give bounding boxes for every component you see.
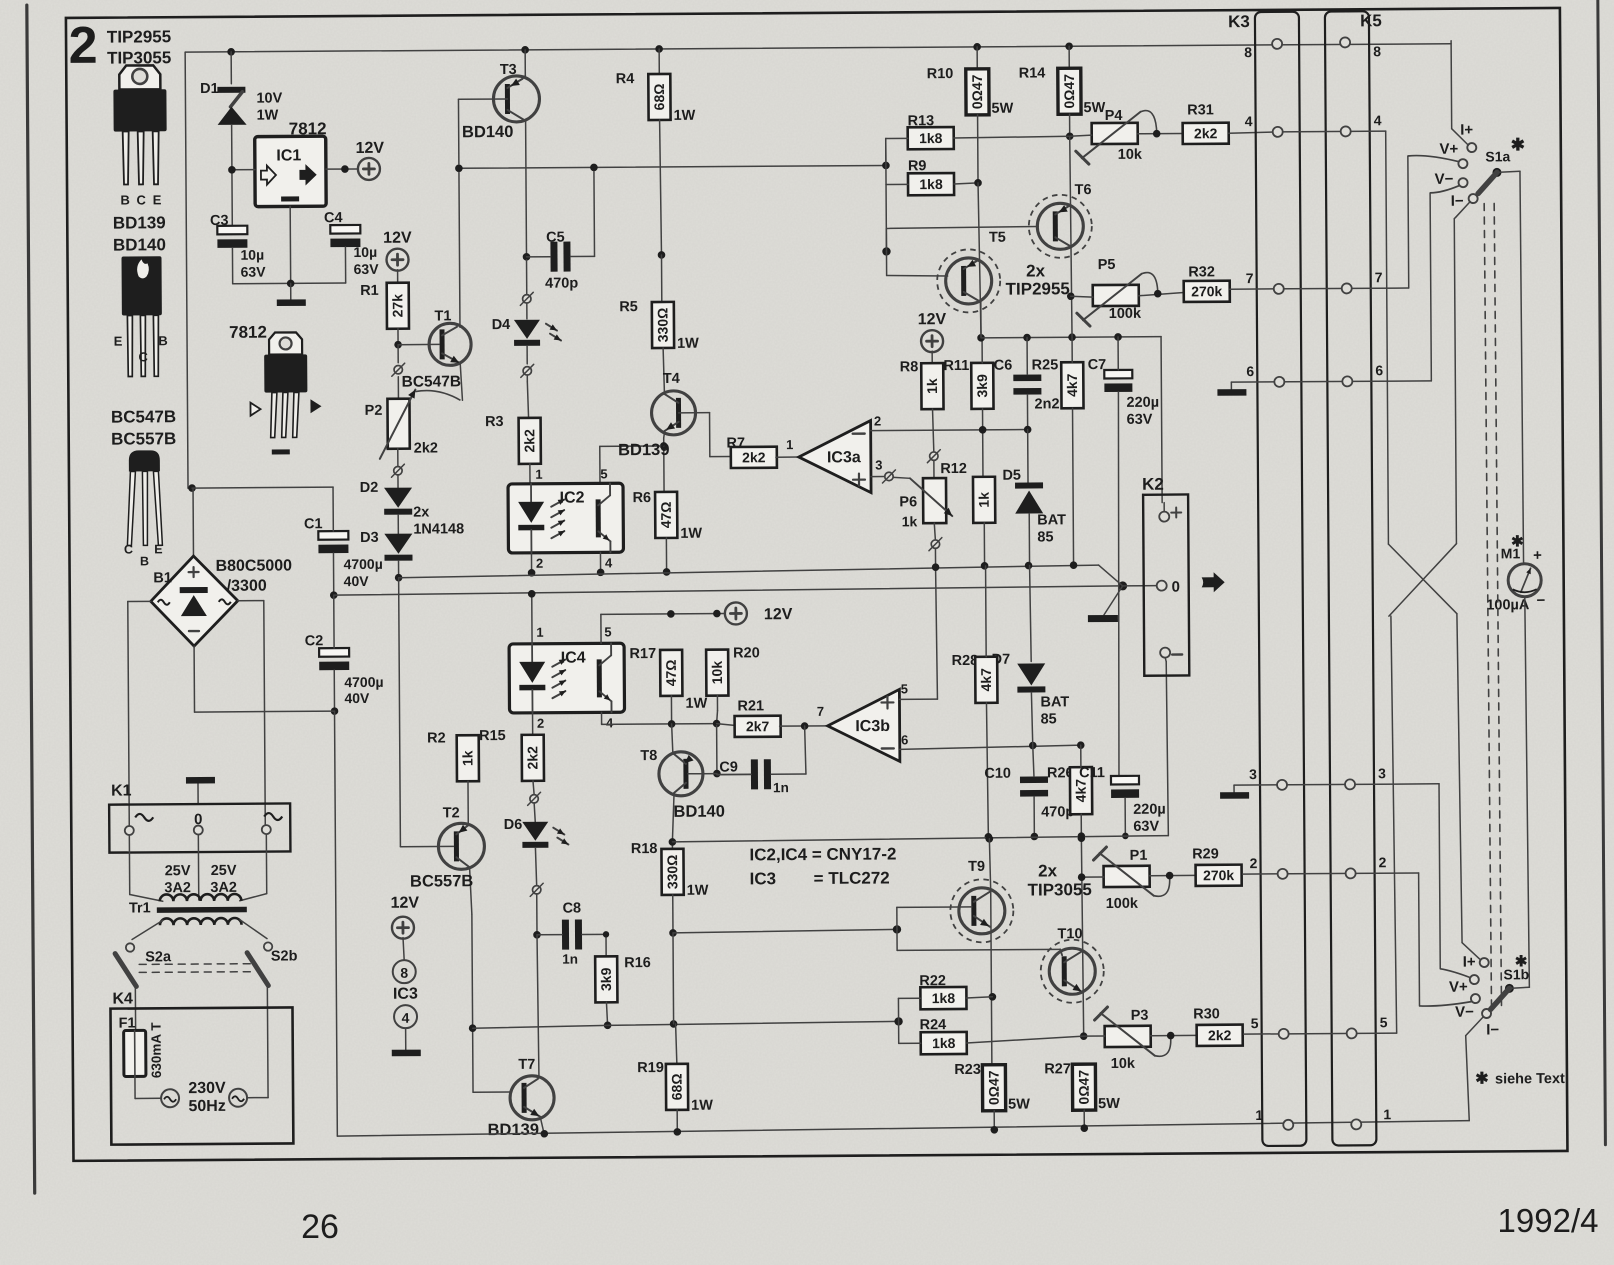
svg-text:2k2: 2k2 <box>742 449 766 465</box>
svg-text:R18: R18 <box>631 841 658 857</box>
svg-text:220µ: 220µ <box>1133 802 1166 818</box>
svg-text:2x: 2x <box>1038 861 1058 880</box>
svg-text:12V: 12V <box>918 311 947 328</box>
svg-text:B80C5000: B80C5000 <box>215 557 292 575</box>
svg-text:C8: C8 <box>563 901 582 917</box>
svg-text:D6: D6 <box>504 817 523 833</box>
svg-text:1k: 1k <box>902 513 918 529</box>
svg-text:7: 7 <box>1375 269 1383 285</box>
svg-text:D1: D1 <box>200 81 219 97</box>
svg-text:TIP2955: TIP2955 <box>107 27 171 46</box>
svg-text:R25: R25 <box>1032 357 1059 373</box>
svg-text:= TLC272: = TLC272 <box>814 868 890 888</box>
svg-text:100k: 100k <box>1106 896 1139 912</box>
svg-text:1k8: 1k8 <box>932 990 956 1006</box>
svg-text:3k9: 3k9 <box>598 967 614 991</box>
svg-text:3: 3 <box>1378 765 1386 781</box>
svg-text:C: C <box>124 542 133 556</box>
svg-text:+: + <box>1533 547 1542 564</box>
svg-text:D3: D3 <box>360 530 379 546</box>
svg-text:4: 4 <box>402 1010 410 1026</box>
svg-text:B1: B1 <box>153 570 172 586</box>
svg-text:2: 2 <box>1250 855 1258 871</box>
svg-text:1: 1 <box>1383 1106 1391 1122</box>
svg-text:BAT: BAT <box>1037 512 1066 528</box>
svg-text:270k: 270k <box>1203 867 1234 883</box>
svg-text:K4: K4 <box>112 990 133 1007</box>
svg-text:R10: R10 <box>927 66 954 82</box>
svg-text:K1: K1 <box>111 782 132 799</box>
svg-text:47Ω: 47Ω <box>658 501 674 528</box>
svg-text:R20: R20 <box>733 645 760 661</box>
svg-text:BAT: BAT <box>1040 694 1069 710</box>
svg-text:K2: K2 <box>1142 475 1164 494</box>
svg-text:siehe Text: siehe Text <box>1495 1071 1565 1087</box>
svg-text:4k7: 4k7 <box>1064 373 1080 397</box>
svg-text:D5: D5 <box>1002 468 1021 484</box>
svg-text:IC3: IC3 <box>750 869 777 888</box>
svg-text:630mA T: 630mA T <box>149 1022 164 1079</box>
svg-text:C: C <box>138 349 148 364</box>
svg-text:K5: K5 <box>1360 11 1382 30</box>
svg-text:T4: T4 <box>663 371 680 387</box>
svg-text:7: 7 <box>817 704 824 719</box>
svg-text:4: 4 <box>1374 112 1382 128</box>
svg-text:I−: I− <box>1486 1021 1499 1038</box>
svg-text:V+: V+ <box>1439 141 1458 158</box>
svg-text:47Ω: 47Ω <box>663 659 679 686</box>
svg-text:BD140: BD140 <box>673 803 724 821</box>
svg-text:2: 2 <box>68 17 97 75</box>
svg-text:BD139: BD139 <box>113 213 166 232</box>
svg-text:4700µ: 4700µ <box>343 556 382 572</box>
svg-text:1992/4: 1992/4 <box>1498 1202 1599 1239</box>
svg-text:2k2: 2k2 <box>521 429 537 453</box>
svg-text:2: 2 <box>536 556 543 571</box>
svg-text:P6: P6 <box>899 494 917 510</box>
svg-text:1: 1 <box>786 437 793 452</box>
svg-text:✱: ✱ <box>1511 533 1524 550</box>
svg-text:D2: D2 <box>360 480 379 496</box>
svg-text:R17: R17 <box>629 646 656 662</box>
svg-text:T8: T8 <box>640 748 657 764</box>
svg-text:BD139: BD139 <box>618 441 669 459</box>
svg-text:1W: 1W <box>674 108 696 124</box>
svg-text:BD139: BD139 <box>488 1121 539 1139</box>
svg-text:R29: R29 <box>1192 846 1219 862</box>
svg-text:P2: P2 <box>365 403 383 419</box>
svg-text:63V: 63V <box>1133 819 1159 835</box>
svg-text:63V: 63V <box>354 261 380 277</box>
svg-text:3: 3 <box>875 457 882 472</box>
svg-text:IC3b: IC3b <box>855 718 890 735</box>
svg-text:TIP3055: TIP3055 <box>1028 880 1092 899</box>
svg-text:1W: 1W <box>680 526 702 542</box>
svg-text:0Ω47: 0Ω47 <box>1076 1070 1092 1105</box>
svg-text:1N4148: 1N4148 <box>413 521 464 537</box>
svg-text:5: 5 <box>1380 1014 1388 1030</box>
svg-text:12V: 12V <box>383 230 412 247</box>
svg-text:V−: V− <box>1455 1004 1474 1021</box>
svg-text:T7: T7 <box>518 1057 535 1073</box>
svg-text:V−: V− <box>1435 171 1454 188</box>
svg-text:R12: R12 <box>940 461 967 477</box>
svg-text:5: 5 <box>1251 1015 1259 1031</box>
svg-text:330Ω: 330Ω <box>654 308 670 343</box>
svg-text:40V: 40V <box>344 690 370 706</box>
svg-text:25V: 25V <box>211 863 237 879</box>
svg-text:E: E <box>154 542 162 556</box>
svg-text:2: 2 <box>537 716 544 731</box>
svg-text:5W: 5W <box>1083 100 1105 116</box>
svg-text:BC547B: BC547B <box>402 373 462 390</box>
svg-text:R30: R30 <box>1193 1006 1220 1022</box>
svg-text:6: 6 <box>901 732 908 747</box>
svg-text:C4: C4 <box>324 210 343 226</box>
svg-text:1k: 1k <box>924 378 940 394</box>
svg-text:/3300: /3300 <box>227 578 267 595</box>
svg-text:Tr1: Tr1 <box>129 900 151 916</box>
svg-text:10k: 10k <box>1111 1056 1136 1072</box>
svg-text:4k7: 4k7 <box>1073 779 1089 803</box>
svg-text:S2a: S2a <box>145 949 172 965</box>
svg-text:10µ: 10µ <box>240 247 264 263</box>
svg-text:1k: 1k <box>976 492 992 508</box>
svg-text:T3: T3 <box>500 62 517 78</box>
svg-text:C6: C6 <box>994 358 1013 374</box>
svg-text:26: 26 <box>301 1208 339 1246</box>
svg-text:12V: 12V <box>355 140 384 157</box>
svg-text:B: B <box>140 554 149 568</box>
svg-text:IC4: IC4 <box>561 649 586 666</box>
svg-text:T1: T1 <box>434 308 451 324</box>
svg-text:220µ: 220µ <box>1126 395 1159 411</box>
svg-text:2k7: 2k7 <box>746 718 770 734</box>
svg-text:BC547B: BC547B <box>111 407 176 426</box>
svg-text:P4: P4 <box>1105 108 1123 124</box>
svg-text:R6: R6 <box>633 490 652 506</box>
svg-text:3k9: 3k9 <box>974 374 990 398</box>
svg-text:R19: R19 <box>637 1060 664 1076</box>
svg-text:K3: K3 <box>1228 12 1250 31</box>
svg-text:1: 1 <box>1255 1107 1263 1123</box>
svg-text:C1: C1 <box>304 516 323 532</box>
svg-text:2: 2 <box>1379 854 1387 870</box>
svg-text:R16: R16 <box>624 955 651 971</box>
svg-text:R1: R1 <box>360 283 379 299</box>
svg-text:✱: ✱ <box>1475 1070 1489 1087</box>
svg-text:R21: R21 <box>737 698 764 714</box>
svg-text:−: − <box>1536 592 1545 609</box>
svg-text:0Ω47: 0Ω47 <box>1061 74 1077 109</box>
svg-text:R23: R23 <box>954 1062 981 1078</box>
svg-text:4k7: 4k7 <box>978 668 994 692</box>
svg-text:7812: 7812 <box>229 323 267 342</box>
svg-text:R32: R32 <box>1188 264 1215 280</box>
svg-text:68Ω: 68Ω <box>669 1073 685 1100</box>
svg-text:1: 1 <box>536 625 543 640</box>
svg-text:1n: 1n <box>773 780 789 795</box>
svg-text:R31: R31 <box>1187 102 1214 118</box>
svg-text:R3: R3 <box>485 414 504 430</box>
svg-text:✱: ✱ <box>1515 953 1528 970</box>
svg-text:100µA: 100µA <box>1486 597 1530 613</box>
svg-text:BC557B: BC557B <box>111 429 176 448</box>
svg-text:I+: I+ <box>1463 954 1476 971</box>
svg-text:R27: R27 <box>1044 1061 1071 1077</box>
svg-text:85: 85 <box>1041 711 1057 727</box>
svg-text:IC3a: IC3a <box>827 449 861 466</box>
svg-text:8: 8 <box>1244 44 1252 60</box>
svg-text:T5: T5 <box>989 230 1006 246</box>
svg-text:✱: ✱ <box>1511 135 1525 154</box>
svg-text:T9: T9 <box>968 859 985 875</box>
svg-text:R4: R4 <box>616 71 635 87</box>
svg-text:R2: R2 <box>427 730 446 746</box>
svg-text:230V: 230V <box>188 1080 226 1097</box>
svg-text:25V: 25V <box>165 863 191 879</box>
svg-text:S1a: S1a <box>1485 148 1510 164</box>
svg-text:1W: 1W <box>687 883 709 899</box>
svg-text:63V: 63V <box>241 264 267 280</box>
svg-text:1k: 1k <box>459 750 475 766</box>
svg-text:5W: 5W <box>1098 1096 1120 1112</box>
svg-text:10k: 10k <box>1118 147 1143 163</box>
svg-text:5: 5 <box>604 624 611 639</box>
svg-text:40V: 40V <box>344 573 370 589</box>
svg-text:1W: 1W <box>257 107 279 123</box>
svg-text:E: E <box>153 192 162 207</box>
svg-text:R5: R5 <box>619 299 638 315</box>
svg-text:85: 85 <box>1037 529 1053 545</box>
svg-text:4: 4 <box>606 715 614 730</box>
svg-text:R15: R15 <box>479 728 506 744</box>
svg-text:R11: R11 <box>943 358 969 374</box>
svg-text:2k2: 2k2 <box>524 746 540 770</box>
svg-text:7: 7 <box>1246 270 1254 286</box>
svg-text:R14: R14 <box>1019 65 1046 81</box>
svg-text:5: 5 <box>600 466 607 481</box>
svg-text:0Ω47: 0Ω47 <box>969 74 985 109</box>
svg-text:B: B <box>158 333 167 348</box>
svg-text:0: 0 <box>1171 579 1179 596</box>
svg-text:6: 6 <box>1246 363 1254 379</box>
svg-text:2k2: 2k2 <box>1208 1027 1232 1043</box>
svg-text:TIP2955: TIP2955 <box>1006 279 1070 298</box>
svg-text:68Ω: 68Ω <box>651 84 667 111</box>
svg-text:D4: D4 <box>492 317 511 333</box>
svg-text:P1: P1 <box>1130 848 1148 864</box>
svg-text:2k2: 2k2 <box>1194 125 1218 141</box>
svg-text:V+: V+ <box>1449 979 1468 996</box>
svg-text:I+: I+ <box>1460 122 1473 139</box>
svg-text:1W: 1W <box>691 1098 713 1114</box>
svg-text:C10: C10 <box>984 766 1011 782</box>
svg-text:2n2: 2n2 <box>1034 396 1059 412</box>
svg-text:2: 2 <box>874 414 881 429</box>
svg-text:5: 5 <box>901 681 908 696</box>
svg-text:6: 6 <box>1375 362 1383 378</box>
svg-text:4: 4 <box>605 555 613 570</box>
svg-text:IC1: IC1 <box>276 147 301 164</box>
svg-text:1W: 1W <box>685 696 707 712</box>
svg-text:P5: P5 <box>1098 257 1116 273</box>
svg-text:BD140: BD140 <box>462 123 513 141</box>
svg-text:470p: 470p <box>545 276 578 292</box>
svg-text:270k: 270k <box>1191 283 1222 299</box>
svg-text:12V: 12V <box>390 895 419 912</box>
svg-text:S2b: S2b <box>271 948 298 964</box>
svg-text:E: E <box>114 334 123 349</box>
svg-text:8: 8 <box>400 965 408 981</box>
svg-text:330Ω: 330Ω <box>664 855 680 890</box>
svg-text:R8: R8 <box>900 359 919 375</box>
svg-text:4700µ: 4700µ <box>344 674 383 690</box>
svg-text:2x: 2x <box>413 505 429 521</box>
svg-text:1k8: 1k8 <box>932 1035 956 1051</box>
svg-text:BC557B: BC557B <box>410 872 473 890</box>
svg-text:2k2: 2k2 <box>414 440 438 456</box>
svg-text:C2: C2 <box>305 633 324 649</box>
svg-text:C11: C11 <box>1079 765 1105 781</box>
svg-text:1k8: 1k8 <box>919 130 943 146</box>
svg-text:1n: 1n <box>562 952 578 967</box>
svg-text:100k: 100k <box>1109 306 1142 322</box>
svg-text:10V: 10V <box>256 90 282 106</box>
svg-text:1: 1 <box>535 467 542 482</box>
svg-text:27k: 27k <box>389 294 405 318</box>
svg-text:10k: 10k <box>709 661 725 685</box>
svg-text:C: C <box>136 192 146 207</box>
svg-text:5W: 5W <box>991 101 1013 117</box>
svg-text:T10: T10 <box>1057 926 1082 942</box>
svg-text:IC2,IC4 = CNY17-2: IC2,IC4 = CNY17-2 <box>749 844 896 864</box>
svg-text:4: 4 <box>1245 113 1253 129</box>
svg-text:IC3: IC3 <box>393 986 418 1003</box>
svg-text:63V: 63V <box>1127 412 1153 428</box>
svg-text:12V: 12V <box>764 606 793 623</box>
svg-text:T6: T6 <box>1075 182 1092 198</box>
svg-text:I−: I− <box>1451 193 1464 210</box>
svg-text:0Ω47: 0Ω47 <box>986 1070 1002 1105</box>
svg-text:10µ: 10µ <box>353 244 377 260</box>
svg-text:P3: P3 <box>1131 1008 1149 1024</box>
svg-text:2x: 2x <box>1026 261 1046 280</box>
svg-text:1W: 1W <box>677 336 699 352</box>
svg-text:T2: T2 <box>443 805 460 821</box>
svg-text:B: B <box>120 192 129 207</box>
svg-text:C9: C9 <box>719 759 738 775</box>
svg-text:50Hz: 50Hz <box>188 1098 225 1115</box>
svg-text:IC2: IC2 <box>560 489 585 506</box>
svg-text:BD140: BD140 <box>113 235 166 254</box>
svg-text:8: 8 <box>1373 43 1381 59</box>
svg-text:1k8: 1k8 <box>919 176 943 192</box>
svg-text:R9: R9 <box>908 158 927 174</box>
svg-text:5W: 5W <box>1008 1097 1030 1113</box>
svg-text:3: 3 <box>1249 766 1257 782</box>
